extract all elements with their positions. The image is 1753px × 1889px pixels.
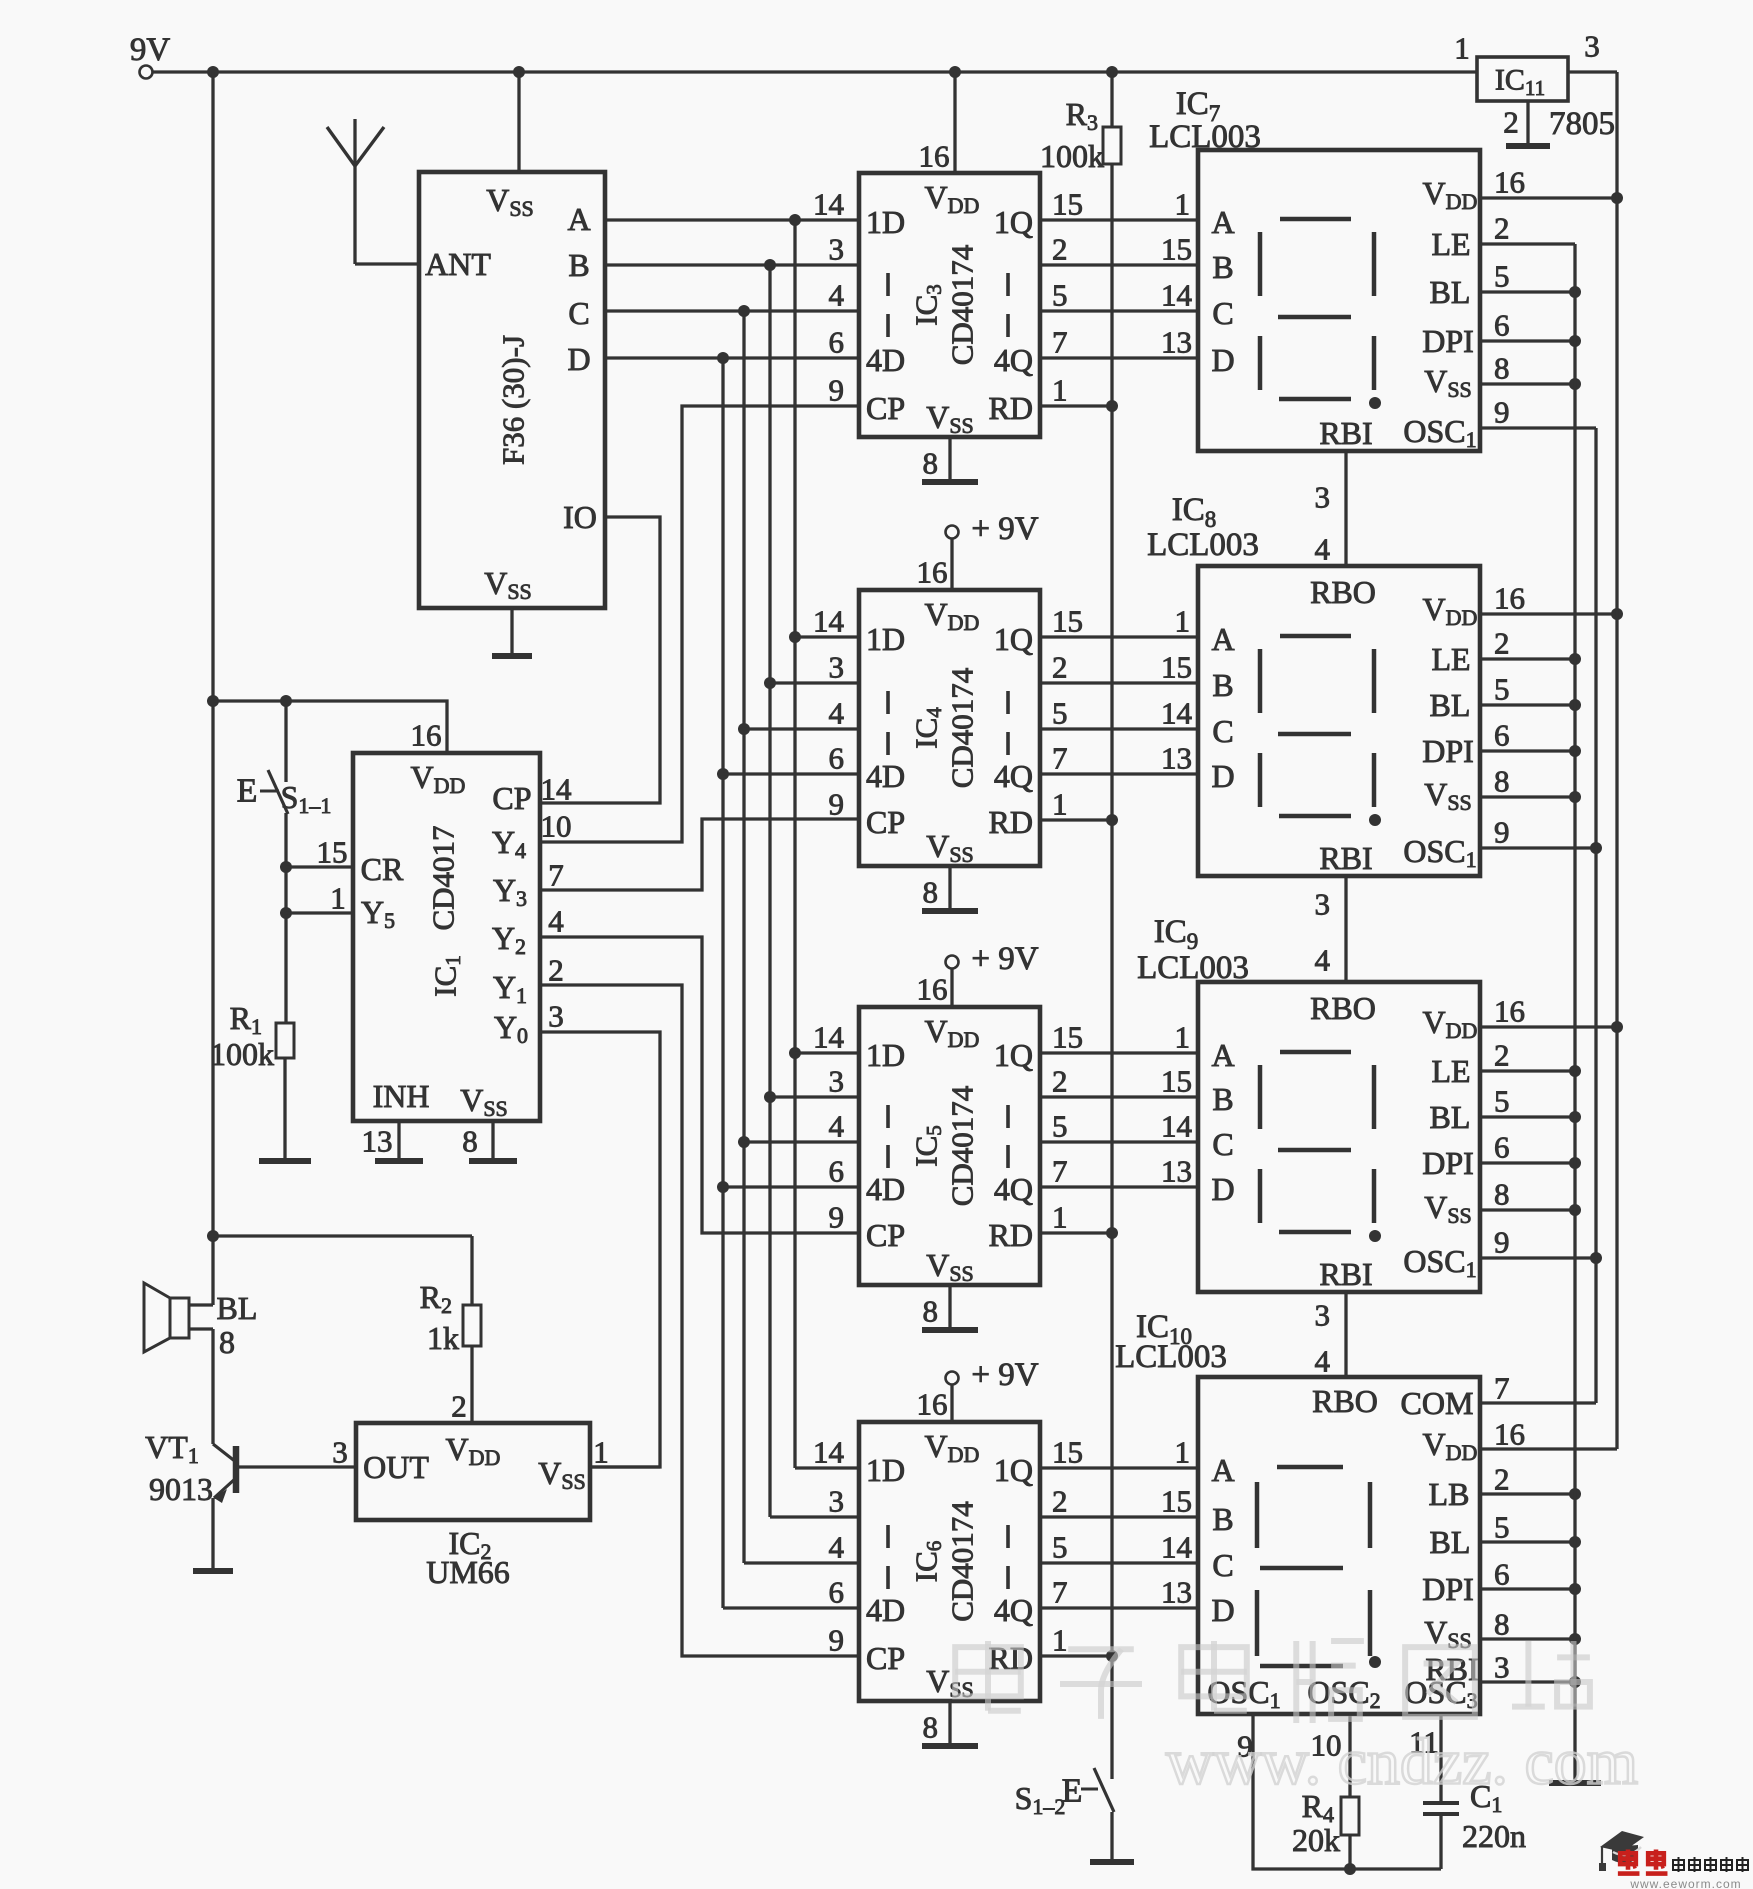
svg-text:4D: 4D — [866, 1171, 905, 1207]
svg-text:B: B — [568, 247, 589, 283]
svg-text:CD40174: CD40174 — [945, 667, 980, 788]
svg-text:1Q: 1Q — [994, 1452, 1033, 1488]
svg-text:6: 6 — [1494, 1130, 1510, 1165]
svg-text:2: 2 — [1052, 1064, 1068, 1099]
svg-text:13: 13 — [1161, 741, 1192, 776]
svg-text:4Q: 4Q — [994, 758, 1033, 794]
svg-text:14: 14 — [813, 1020, 845, 1055]
svg-text:BL: BL — [1430, 1099, 1471, 1135]
svg-text:C: C — [1212, 713, 1233, 749]
svg-text:4D: 4D — [866, 758, 905, 794]
svg-text:2: 2 — [1503, 105, 1519, 140]
svg-text:15: 15 — [1052, 1435, 1083, 1470]
svg-text:CP: CP — [866, 1217, 905, 1253]
svg-text:9: 9 — [829, 1200, 845, 1235]
svg-text:15: 15 — [1161, 232, 1192, 267]
svg-text:1: 1 — [1175, 187, 1191, 222]
svg-text:CP: CP — [866, 390, 905, 426]
svg-text:3: 3 — [829, 650, 845, 685]
svg-text:CR: CR — [361, 851, 404, 887]
svg-text:5: 5 — [1052, 1109, 1068, 1144]
svg-text:B: B — [1212, 1501, 1233, 1537]
svg-text:14: 14 — [1161, 1109, 1193, 1144]
svg-text:+ 9V: + 9V — [971, 1357, 1038, 1393]
svg-text:9: 9 — [829, 1623, 845, 1658]
svg-text:8: 8 — [1494, 351, 1510, 386]
svg-text:16: 16 — [1494, 581, 1525, 616]
svg-text:1: 1 — [330, 881, 346, 916]
svg-text:D: D — [567, 341, 590, 377]
svg-text:D: D — [1211, 342, 1234, 378]
svg-text:A: A — [1211, 1452, 1234, 1488]
svg-text:B: B — [1212, 1081, 1233, 1117]
svg-text:RBI: RBI — [1319, 415, 1372, 451]
svg-text:7: 7 — [1052, 325, 1068, 360]
svg-text:5: 5 — [1494, 259, 1510, 294]
svg-text:2: 2 — [1052, 1484, 1068, 1519]
svg-text:BL: BL — [217, 1290, 258, 1326]
svg-text:ANT: ANT — [425, 246, 491, 282]
svg-text:100k: 100k — [1040, 138, 1104, 174]
svg-text:3: 3 — [1315, 480, 1331, 515]
svg-text:BL: BL — [1430, 1524, 1471, 1560]
svg-text:CD40174: CD40174 — [945, 1085, 980, 1206]
svg-text:6: 6 — [829, 325, 845, 360]
svg-text:220n: 220n — [1462, 1818, 1526, 1854]
svg-text:4D: 4D — [866, 342, 905, 378]
svg-text:8: 8 — [923, 1294, 939, 1329]
svg-text:C: C — [1212, 1126, 1233, 1162]
svg-text:7: 7 — [548, 858, 564, 893]
svg-text:B: B — [1212, 667, 1233, 703]
svg-text:2: 2 — [1494, 1462, 1510, 1497]
svg-text:3: 3 — [1584, 29, 1600, 64]
svg-text:1: 1 — [593, 1435, 609, 1470]
svg-text:13: 13 — [1161, 1575, 1192, 1610]
svg-text:16: 16 — [917, 1387, 948, 1422]
svg-text:CD4017: CD4017 — [426, 825, 461, 930]
svg-text:9: 9 — [1494, 1225, 1510, 1260]
svg-text:5: 5 — [1494, 672, 1510, 707]
svg-text:LCL003: LCL003 — [1149, 119, 1261, 155]
svg-text:www. cndzz. com: www. cndzz. com — [1166, 1726, 1638, 1799]
svg-text:16: 16 — [917, 555, 948, 590]
svg-text:COM: COM — [1401, 1385, 1474, 1421]
svg-text:C: C — [568, 295, 589, 331]
svg-text:3: 3 — [1315, 887, 1331, 922]
svg-text:1Q: 1Q — [994, 204, 1033, 240]
svg-text:14: 14 — [813, 187, 845, 222]
svg-text:1D: 1D — [866, 1037, 905, 1073]
svg-text:16: 16 — [1494, 994, 1525, 1029]
svg-text:6: 6 — [829, 1154, 845, 1189]
svg-text:8: 8 — [923, 446, 939, 481]
svg-text:1: 1 — [1052, 1623, 1068, 1658]
svg-text:1: 1 — [1454, 31, 1470, 66]
svg-text:RBO: RBO — [1312, 1383, 1378, 1419]
svg-text:2: 2 — [1494, 211, 1510, 246]
svg-text:LCL003: LCL003 — [1115, 1339, 1227, 1375]
svg-text:4: 4 — [829, 1109, 845, 1144]
svg-text:4: 4 — [829, 278, 845, 313]
svg-text:7805: 7805 — [1549, 106, 1615, 142]
svg-text:1: 1 — [1175, 1020, 1191, 1055]
svg-text:3: 3 — [1494, 1650, 1510, 1685]
svg-text:13: 13 — [362, 1124, 393, 1159]
svg-text:D: D — [1211, 758, 1234, 794]
svg-text:4: 4 — [548, 904, 564, 939]
svg-text:16: 16 — [1494, 1417, 1525, 1452]
svg-text:A: A — [1211, 204, 1234, 240]
svg-text:4Q: 4Q — [994, 1592, 1033, 1628]
svg-text:5: 5 — [1494, 1084, 1510, 1119]
svg-text:16: 16 — [917, 972, 948, 1007]
svg-text:15: 15 — [1161, 1064, 1192, 1099]
svg-text:BL: BL — [1430, 274, 1471, 310]
svg-text:7: 7 — [1052, 741, 1068, 776]
svg-text:8: 8 — [219, 1324, 235, 1360]
svg-text:CD40174: CD40174 — [945, 244, 980, 365]
svg-text:9V: 9V — [130, 32, 171, 68]
svg-text:CD40174: CD40174 — [945, 1501, 980, 1622]
svg-text:4: 4 — [1315, 1344, 1331, 1379]
svg-text:8: 8 — [1494, 1607, 1510, 1642]
svg-text:D: D — [1211, 1171, 1234, 1207]
svg-text:16: 16 — [1494, 165, 1525, 200]
svg-text:F36 (30)-J: F36 (30)-J — [496, 335, 531, 465]
svg-text:1D: 1D — [866, 621, 905, 657]
svg-text:CP: CP — [866, 804, 905, 840]
svg-text:2: 2 — [1494, 1038, 1510, 1073]
svg-text:16: 16 — [919, 139, 950, 174]
svg-text:LCL003: LCL003 — [1147, 527, 1259, 563]
svg-text:10: 10 — [541, 809, 572, 844]
svg-text:5: 5 — [1052, 696, 1068, 731]
svg-text:15: 15 — [1161, 1484, 1192, 1519]
svg-text:A: A — [567, 201, 590, 237]
svg-text:5: 5 — [1494, 1510, 1510, 1545]
svg-text:13: 13 — [1161, 1154, 1192, 1189]
svg-text:4Q: 4Q — [994, 1171, 1033, 1207]
svg-text:LE: LE — [1431, 1053, 1470, 1089]
svg-text:3: 3 — [829, 232, 845, 267]
svg-text:1k: 1k — [427, 1320, 459, 1356]
svg-text:DPI: DPI — [1422, 1571, 1474, 1607]
svg-text:RBO: RBO — [1310, 990, 1376, 1026]
svg-text:8: 8 — [1494, 1177, 1510, 1212]
svg-text:OUT: OUT — [363, 1449, 429, 1485]
svg-text:CP: CP — [492, 780, 531, 816]
svg-text:E: E — [237, 773, 258, 810]
svg-text:RD: RD — [989, 390, 1033, 426]
svg-text:RD: RD — [989, 1217, 1033, 1253]
svg-text:INH: INH — [373, 1078, 430, 1114]
svg-text:RD: RD — [989, 804, 1033, 840]
svg-text:8: 8 — [462, 1124, 478, 1159]
svg-text:2: 2 — [1052, 232, 1068, 267]
svg-text:1: 1 — [1052, 373, 1068, 408]
svg-text:DPI: DPI — [1422, 733, 1474, 769]
svg-text:3: 3 — [1315, 1298, 1331, 1333]
svg-text:6: 6 — [829, 1575, 845, 1610]
svg-text:14: 14 — [1161, 1530, 1193, 1565]
svg-text:B: B — [1212, 249, 1233, 285]
svg-text:LB: LB — [1429, 1476, 1470, 1512]
svg-text:C: C — [1212, 295, 1233, 331]
svg-text:15: 15 — [1052, 187, 1083, 222]
svg-text:A: A — [1211, 1037, 1234, 1073]
svg-text:3: 3 — [829, 1484, 845, 1519]
svg-text:2: 2 — [451, 1389, 467, 1424]
svg-text:LE: LE — [1431, 641, 1470, 677]
svg-text:15: 15 — [1052, 1020, 1083, 1055]
svg-text:IO: IO — [563, 499, 597, 535]
svg-text:4D: 4D — [866, 1592, 905, 1628]
svg-text:8: 8 — [923, 875, 939, 910]
svg-text:RBI: RBI — [1319, 840, 1372, 876]
svg-text:4Q: 4Q — [994, 342, 1033, 378]
svg-text:8: 8 — [1494, 764, 1510, 799]
svg-text:9: 9 — [1494, 395, 1510, 430]
svg-text:7: 7 — [1052, 1575, 1068, 1610]
svg-text:www.eeworm.com: www.eeworm.com — [1629, 1877, 1741, 1889]
svg-text:5: 5 — [1052, 1530, 1068, 1565]
svg-text:3: 3 — [332, 1435, 348, 1470]
svg-text:20k: 20k — [1292, 1822, 1340, 1858]
svg-text:14: 14 — [1161, 278, 1193, 313]
svg-text:14: 14 — [813, 1435, 845, 1470]
svg-text:9013: 9013 — [149, 1471, 213, 1507]
svg-text:6: 6 — [829, 741, 845, 776]
svg-text:UM66: UM66 — [426, 1554, 510, 1590]
svg-text:5: 5 — [1052, 278, 1068, 313]
svg-text:1: 1 — [1052, 787, 1068, 822]
svg-text:6: 6 — [1494, 1557, 1510, 1592]
svg-text:RBO: RBO — [1310, 574, 1376, 610]
svg-text:9: 9 — [1494, 815, 1510, 850]
svg-text:6: 6 — [1494, 308, 1510, 343]
svg-text:9: 9 — [829, 787, 845, 822]
svg-text:2: 2 — [548, 953, 564, 988]
svg-text:1Q: 1Q — [994, 1037, 1033, 1073]
svg-text:+ 9V: + 9V — [971, 511, 1038, 547]
svg-text:14: 14 — [1161, 696, 1193, 731]
svg-text:8: 8 — [923, 1710, 939, 1745]
svg-text:3: 3 — [829, 1064, 845, 1099]
svg-text:4: 4 — [1315, 943, 1331, 978]
svg-text:15: 15 — [1052, 604, 1083, 639]
svg-text:+ 9V: + 9V — [971, 941, 1038, 977]
svg-text:1D: 1D — [866, 1452, 905, 1488]
svg-text:CP: CP — [866, 1640, 905, 1676]
svg-text:2: 2 — [1052, 650, 1068, 685]
svg-text:4: 4 — [829, 1530, 845, 1565]
svg-text:9: 9 — [829, 373, 845, 408]
svg-text:A: A — [1211, 621, 1234, 657]
svg-text:15: 15 — [317, 835, 348, 870]
svg-text:3: 3 — [548, 999, 564, 1034]
svg-text:6: 6 — [1494, 718, 1510, 753]
svg-text:LCL003: LCL003 — [1137, 950, 1249, 986]
svg-text:13: 13 — [1161, 325, 1192, 360]
svg-text:1: 1 — [1175, 1435, 1191, 1470]
svg-text:DPI: DPI — [1422, 323, 1474, 359]
svg-text:D: D — [1211, 1592, 1234, 1628]
svg-text:15: 15 — [1161, 650, 1192, 685]
svg-text:4: 4 — [1315, 532, 1331, 567]
svg-text:1D: 1D — [866, 204, 905, 240]
svg-text:16: 16 — [411, 718, 442, 753]
svg-text:14: 14 — [541, 772, 573, 807]
svg-text:14: 14 — [813, 604, 845, 639]
svg-text:1Q: 1Q — [994, 621, 1033, 657]
svg-text:4: 4 — [829, 696, 845, 731]
svg-text:7: 7 — [1494, 1371, 1510, 1406]
svg-text:7: 7 — [1052, 1154, 1068, 1189]
svg-text:RBI: RBI — [1319, 1256, 1372, 1292]
svg-text:DPI: DPI — [1422, 1145, 1474, 1181]
svg-text:C: C — [1212, 1547, 1233, 1583]
svg-text:100k: 100k — [210, 1036, 274, 1072]
svg-text:1: 1 — [1052, 1200, 1068, 1235]
svg-text:BL: BL — [1430, 687, 1471, 723]
svg-text:1: 1 — [1175, 604, 1191, 639]
svg-text:LE: LE — [1431, 226, 1470, 262]
svg-text:2: 2 — [1494, 626, 1510, 661]
